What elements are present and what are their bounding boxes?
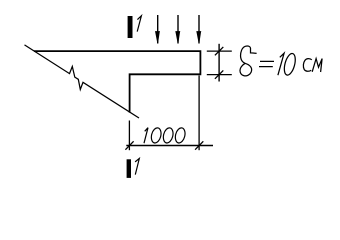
dimension text 1000: digit 1 (144, 128, 148, 144)
thickness dimension: dimension line (218, 44, 220, 82)
thickness label: letter s (Cyrillic es) (303, 59, 311, 72)
thickness dimension: top tick (215, 47, 223, 55)
dimension 1000: right extension line (198, 76, 200, 151)
slab cut diagonal with break symbol (25, 45, 140, 118)
slab outline (section profile) (34, 51, 200, 113)
dimension 1000: left tick (125, 141, 133, 149)
dimension text 1000: digit 0 (third) (174, 127, 187, 144)
load arrow 2 head (176, 32, 180, 44)
thickness label: letter m (Cyrillic em) (312, 59, 322, 72)
load arrow 1 head (156, 32, 160, 44)
dimension text 1000: digit 0 (second) (162, 127, 175, 144)
dimension 1000: right tick (195, 141, 203, 149)
section mark top: label 1 (137, 16, 141, 32)
thickness dimension: top extension line (207, 50, 232, 52)
dimension 1000: left extension line (128, 121, 130, 151)
thickness label: delta glyph (240, 46, 257, 76)
section mark bottom: label 1 (135, 159, 139, 175)
load arrow 2 shaft (177, 15, 179, 44)
dimension text 1000: digit 0 (first) (150, 127, 163, 144)
load arrow 1 shaft (157, 15, 159, 44)
load arrow 3 shaft (198, 15, 200, 44)
thickness label: equals sign (259, 61, 274, 66)
dimension 1000: dimension line (126, 145, 213, 147)
section mark bottom: thick bar (127, 159, 131, 178)
thickness label: digit 1 (278, 53, 284, 75)
section mark top: thick bar (128, 16, 133, 38)
thickness dimension: bottom tick (215, 70, 223, 78)
thickness dimension: bottom extension line (207, 74, 232, 76)
thickness label: digit 0 (282, 52, 297, 76)
load arrow 3 head (197, 32, 201, 44)
